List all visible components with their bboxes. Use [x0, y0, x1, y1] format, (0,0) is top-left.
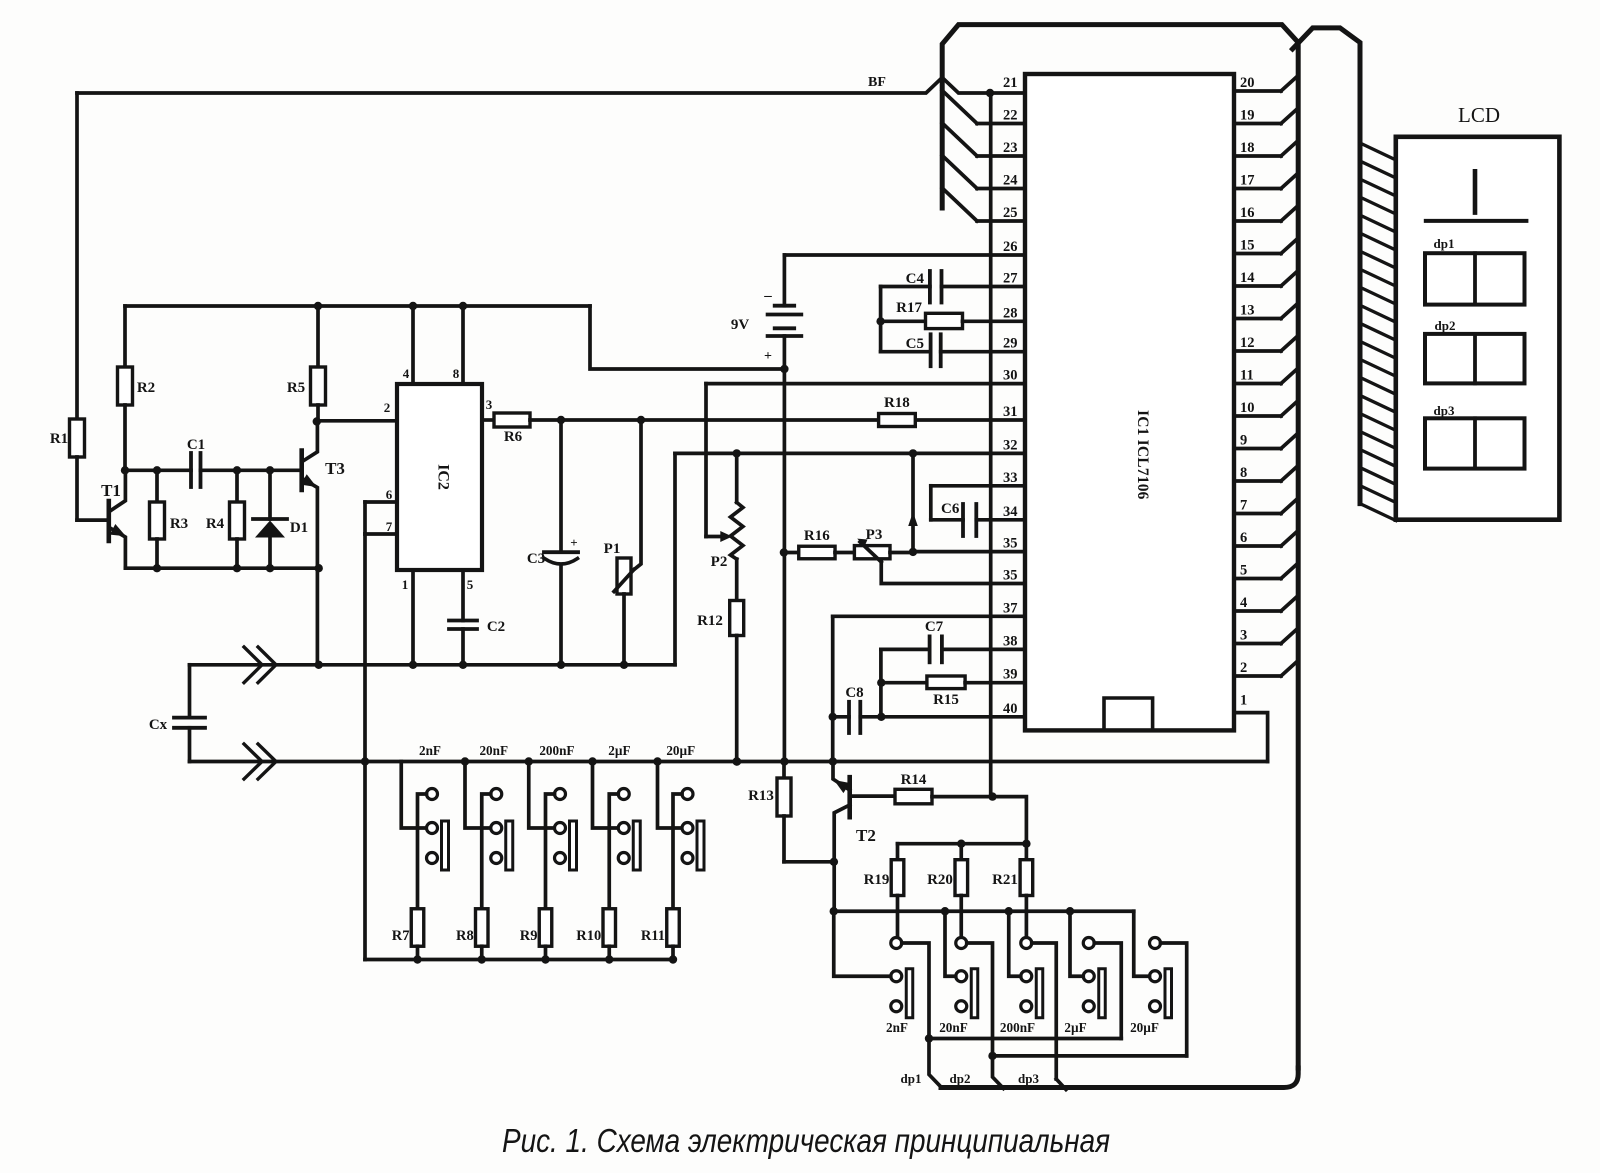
- label C7: [925, 619, 944, 635]
- wire IC1 pin 24 to left band: [942, 156, 1025, 189]
- transistor T3: [301, 422, 318, 569]
- label IC1 pin 12 right: [1240, 335, 1255, 351]
- label 20nF right: [939, 1020, 968, 1035]
- wire R19-R21 top rail: [898, 840, 1031, 848]
- wire IC1 pin37 row: [829, 616, 1026, 765]
- wire P3 to pin35 vertical with arrow: [908, 453, 918, 552]
- switch S1 range 2nF with resistor R7: [401, 762, 448, 964]
- svg-text:2: 2: [1240, 660, 1247, 676]
- svg-text:2µF: 2µF: [1064, 1020, 1086, 1035]
- wire IC1 pin 13 to right band: [1234, 304, 1298, 319]
- svg-text:C5: C5: [906, 336, 924, 352]
- label R3: [170, 516, 188, 532]
- label 20&#181;F left: [666, 743, 695, 758]
- label IC1 pin 7 right: [1240, 498, 1247, 514]
- label IC1 pin 23: [1003, 140, 1018, 156]
- wire ribbon conductor 18: [1360, 450, 1396, 467]
- svg-text:R5: R5: [287, 380, 305, 396]
- label R7: [392, 928, 410, 944]
- label P1: [604, 541, 621, 557]
- wire V+ rail y761: [190, 757, 1268, 765]
- svg-text:3: 3: [486, 397, 493, 412]
- label battery plus: [764, 349, 772, 364]
- label IC1 pin 32: [1003, 437, 1018, 453]
- wire IC1 pin 2 to right band: [1234, 661, 1298, 676]
- label R16: [804, 528, 830, 544]
- capacitor C2: [449, 570, 477, 669]
- label R19: [864, 872, 890, 888]
- switch dp range 20nF: [945, 911, 993, 1056]
- wire IC2 pin1 stub: [409, 570, 417, 669]
- trimmer P1: [614, 416, 645, 665]
- label dp3 LCD: [1434, 403, 1455, 418]
- label 20nF left: [479, 743, 508, 758]
- svg-text:R10: R10: [576, 928, 601, 944]
- label battery minus: [763, 288, 772, 304]
- label 2nF right: [886, 1020, 908, 1035]
- svg-text:28: 28: [1003, 305, 1018, 321]
- wire ribbon conductor 20: [1360, 486, 1396, 503]
- wire dp1 line: [925, 1034, 1121, 1087]
- wire IC1 pin 14 to right band: [1234, 271, 1298, 286]
- svg-text:200nF: 200nF: [539, 743, 574, 758]
- wire IC1 pin35 row: [913, 550, 1025, 554]
- label R4: [206, 516, 225, 532]
- wire IC2 pin2: [317, 419, 397, 423]
- label dp3: [1018, 1071, 1039, 1086]
- wire ribbon conductor 14: [1360, 377, 1396, 394]
- label IC1 pin 14 right: [1240, 270, 1255, 286]
- switch dp range 20&#181;F: [1134, 911, 1187, 1056]
- label 9V: [731, 317, 750, 333]
- wire IC1 pin 10 to right band: [1234, 401, 1298, 416]
- svg-text:–: –: [763, 288, 772, 304]
- label IC1 pin 38: [1003, 633, 1018, 649]
- svg-text:35: 35: [1003, 536, 1018, 552]
- svg-text:C8: C8: [845, 685, 863, 701]
- svg-text:P3: P3: [866, 527, 883, 543]
- svg-text:C3: C3: [527, 551, 545, 567]
- label IC1 pin 1 right: [1240, 693, 1247, 709]
- svg-text:P2: P2: [711, 554, 728, 570]
- svg-text:R17: R17: [896, 300, 922, 316]
- label C2: [487, 619, 505, 635]
- transistor T1: [77, 470, 126, 568]
- LCD box: [1396, 137, 1560, 520]
- label IC1 pin 15 right: [1240, 238, 1255, 254]
- label pin2: [384, 400, 391, 415]
- probe connector bottom: [244, 744, 276, 779]
- svg-text:LCD: LCD: [1458, 103, 1500, 127]
- label IC1 ICL7106: [1134, 410, 1151, 500]
- svg-text:24: 24: [1003, 173, 1018, 189]
- wire IC1 pin 11 to right band: [1234, 369, 1298, 384]
- label 2&#181;F left: [608, 743, 630, 758]
- svg-text:R14: R14: [901, 772, 927, 788]
- battery 9V: [768, 255, 802, 369]
- wire IC1 pin 22 to left band: [942, 91, 1025, 124]
- capacitor C3 polarized: [544, 420, 578, 665]
- wire IC1 pin 25 to left band: [942, 188, 1025, 221]
- label IC1 pin 25: [1003, 205, 1018, 221]
- wire IC1 pin 15 to right band: [1234, 239, 1298, 254]
- svg-text:2nF: 2nF: [419, 743, 441, 758]
- switch dp range 2&#181;F: [1070, 911, 1121, 1038]
- svg-text:1: 1: [1240, 693, 1247, 709]
- label R8: [456, 928, 474, 944]
- resistor R20: [955, 844, 968, 938]
- wire IC1 pin 16 to right band: [1234, 206, 1298, 221]
- svg-text:6: 6: [1240, 530, 1247, 546]
- label IC1 pin 21: [1003, 75, 1018, 91]
- wire IC1 pin 4 to right band: [1234, 596, 1298, 611]
- wire IC1 pin 20 to right band: [1234, 76, 1298, 91]
- wire C7-R15 bracket: [877, 649, 885, 721]
- label pin1: [402, 577, 409, 592]
- wire ribbon conductor 11: [1360, 323, 1396, 340]
- svg-text:5: 5: [467, 577, 474, 592]
- label BF: [868, 75, 886, 90]
- svg-text:T2: T2: [856, 826, 876, 845]
- label IC1 pin 2 right: [1240, 660, 1247, 676]
- svg-text:R4: R4: [206, 516, 225, 532]
- svg-text:C7: C7: [925, 619, 944, 635]
- label IC1 pin 37: [1003, 600, 1018, 616]
- label IC1 pin 17 right: [1240, 173, 1255, 189]
- label pin3: [486, 397, 493, 412]
- wire ribbon conductor 16: [1360, 413, 1396, 430]
- svg-text:IC2: IC2: [435, 464, 452, 490]
- svg-text:14: 14: [1240, 270, 1255, 286]
- svg-text:C6: C6: [941, 501, 960, 517]
- wire ribbon conductor 19: [1360, 468, 1396, 485]
- wire ribbon conductor 5: [1360, 215, 1396, 232]
- svg-text:7: 7: [1240, 498, 1247, 514]
- svg-text:32: 32: [1003, 437, 1018, 453]
- svg-text:R20: R20: [927, 872, 953, 888]
- label pin5: [467, 577, 474, 592]
- capacitor C8: [833, 702, 1025, 733]
- svg-text:22: 22: [1003, 108, 1018, 124]
- svg-text:20nF: 20nF: [939, 1020, 968, 1035]
- wire ribbon conductor 10: [1360, 305, 1396, 322]
- label IC1 pin 18 right: [1240, 140, 1255, 156]
- label Cx: [149, 717, 168, 733]
- wire ribbon band left loop: [941, 25, 1298, 1088]
- wire IC2 pin4 stub: [411, 306, 415, 384]
- svg-text:2nF: 2nF: [886, 1020, 908, 1035]
- label IC1 pin 16 right: [1240, 205, 1255, 221]
- switch dp range 2nF: [834, 911, 929, 1038]
- capacitor C7: [881, 636, 1025, 662]
- wire dp2 line: [988, 1052, 1186, 1089]
- label R14: [901, 772, 927, 788]
- label C1: [187, 437, 205, 453]
- wire IC1 pin 7 to right band: [1234, 499, 1298, 514]
- wire IC1 pin30 P2 wiper feed: [706, 384, 1025, 537]
- label IC1 pin 33: [1003, 470, 1018, 486]
- resistor R1: [70, 93, 85, 520]
- svg-text:R16: R16: [804, 528, 830, 544]
- label R6: [504, 429, 523, 445]
- label C3 plus: [570, 535, 577, 550]
- label dp2: [950, 1071, 971, 1086]
- op-amp IC2 box: [397, 384, 482, 570]
- label IC1 pin 29: [1003, 336, 1018, 352]
- svg-text:13: 13: [1240, 303, 1255, 319]
- svg-text:39: 39: [1003, 667, 1018, 683]
- svg-text:10: 10: [1240, 400, 1255, 416]
- svg-text:dp2: dp2: [1435, 318, 1456, 333]
- capacitor C6: [931, 486, 1025, 536]
- label IC1 pin 3 right: [1240, 628, 1247, 644]
- svg-text:23: 23: [1003, 140, 1018, 156]
- label dp1 LCD: [1434, 236, 1455, 251]
- LCD digit pair dp1: [1425, 253, 1525, 304]
- wire IC1 pin 5 to right band: [1234, 564, 1298, 579]
- svg-text:R8: R8: [456, 928, 474, 944]
- svg-text:38: 38: [1003, 633, 1018, 649]
- label IC1 pin 26: [1003, 239, 1018, 255]
- label R1: [50, 431, 68, 447]
- wire ribbon conductor 7: [1360, 251, 1396, 268]
- svg-text:dp1: dp1: [1434, 236, 1455, 251]
- wire IC1 pin1 return: [1234, 713, 1268, 762]
- label C6: [941, 501, 960, 517]
- wire R14 junction to R21 rail: [993, 797, 1027, 844]
- wire IC2 pins6-7 bracket: [365, 502, 397, 534]
- label IC1 pin 13 right: [1240, 303, 1255, 319]
- label R20: [927, 872, 953, 888]
- svg-text:12: 12: [1240, 335, 1255, 351]
- label IC1 pin 8 right: [1240, 465, 1247, 481]
- LCD digit pair dp2: [1425, 334, 1525, 384]
- svg-text:17: 17: [1240, 173, 1255, 189]
- switch S4 range 2&#181;F with resistor R10: [593, 762, 641, 964]
- wire dp3 drop: [1056, 1079, 1066, 1090]
- wire ribbon conductor 17: [1360, 431, 1396, 448]
- wire ribbon conductor 9: [1360, 287, 1396, 304]
- wire emitter rail y568: [125, 564, 323, 572]
- svg-text:R19: R19: [864, 872, 890, 888]
- svg-text:4: 4: [1240, 595, 1247, 611]
- wire ribbon conductor 6: [1360, 233, 1396, 250]
- svg-text:4: 4: [403, 366, 410, 381]
- svg-text:IC1 ICL7106: IC1 ICL7106: [1134, 410, 1151, 500]
- label 2&#181;F right: [1064, 1020, 1086, 1035]
- svg-text:26: 26: [1003, 239, 1018, 255]
- label R10: [576, 928, 601, 944]
- svg-text:Рис. 1. Схема электрическая пр: Рис. 1. Схема электрическая принципиальн…: [502, 1122, 1110, 1159]
- svg-text:R11: R11: [641, 928, 665, 944]
- label IC1 pin 34: [1003, 504, 1018, 520]
- svg-text:R1: R1: [50, 431, 68, 447]
- wire IC2 pin8 stub: [461, 306, 465, 384]
- wire ribbon conductor 13: [1360, 359, 1396, 376]
- svg-text:5: 5: [1240, 563, 1247, 579]
- capacitor C1: [191, 453, 201, 487]
- label R15: [933, 692, 959, 708]
- label IC1 pin 4 right: [1240, 595, 1247, 611]
- svg-text:1: 1: [402, 577, 409, 592]
- resistor R17: [881, 313, 1025, 328]
- svg-text:40: 40: [1003, 701, 1018, 717]
- svg-text:D1: D1: [290, 520, 308, 536]
- svg-text:R12: R12: [697, 613, 723, 629]
- svg-text:R13: R13: [748, 788, 774, 804]
- wire IC1 pin 18 to right band: [1234, 141, 1298, 156]
- label R2: [137, 380, 155, 396]
- svg-text:20µF: 20µF: [1130, 1020, 1159, 1035]
- transistor T2: [830, 762, 850, 912]
- wire T3 emitter down to rail665: [315, 568, 323, 669]
- svg-text:31: 31: [1003, 404, 1018, 420]
- IC1 bottom notch: [1104, 698, 1153, 730]
- IC U1 IC1 ICL7106 box: [1025, 74, 1234, 730]
- label IC1 pin 11 right: [1240, 368, 1254, 384]
- resistor R13: [777, 762, 834, 862]
- svg-text:27: 27: [1003, 271, 1018, 287]
- resistor R14: [850, 789, 997, 804]
- label D1: [290, 520, 308, 536]
- wire ribbon conductor 12: [1360, 341, 1396, 358]
- label pin4: [403, 366, 410, 381]
- label IC1 pin 27: [1003, 271, 1018, 287]
- wire IC1 pin 19 to right band: [1234, 109, 1298, 124]
- label IC1 pin 6 right: [1240, 530, 1247, 546]
- wire BP vertical bus: [989, 93, 993, 797]
- wire IC1 pin 17 to right band: [1234, 174, 1298, 189]
- svg-text:19: 19: [1240, 108, 1255, 124]
- LCD digit 1 segment: [1473, 171, 1478, 212]
- label LCD: [1458, 103, 1500, 127]
- label pin8: [453, 366, 460, 381]
- label IC2: [435, 464, 452, 490]
- capacitor Cx: [174, 665, 205, 762]
- switch S2 range 20nF with resistor R8: [465, 762, 513, 964]
- svg-text:T3: T3: [325, 459, 345, 478]
- label IC1 pin 39: [1003, 667, 1018, 683]
- svg-text:dp3: dp3: [1018, 1071, 1039, 1086]
- label P3: [866, 527, 883, 543]
- svg-text:30: 30: [1003, 368, 1018, 384]
- LCD digit pair dp3: [1425, 418, 1525, 468]
- svg-text:29: 29: [1003, 336, 1018, 352]
- svg-text:dp2: dp2: [950, 1071, 971, 1086]
- label R9: [520, 928, 538, 944]
- svg-text:P1: P1: [604, 541, 621, 557]
- svg-text:R6: R6: [504, 429, 523, 445]
- svg-text:16: 16: [1240, 205, 1255, 221]
- label 200nF left: [539, 743, 574, 758]
- label IC1 pin 22: [1003, 108, 1018, 124]
- label R5: [287, 380, 305, 396]
- label IC1 pin 35: [1003, 536, 1018, 552]
- resistor R2: [118, 306, 133, 470]
- trimmer P3: [854, 539, 1025, 584]
- wire IC1 pin 9 to right band: [1234, 434, 1298, 449]
- svg-text:+: +: [764, 349, 772, 364]
- svg-text:9: 9: [1240, 433, 1247, 449]
- label dp2 LCD: [1435, 318, 1456, 333]
- wire IC1 pin 3 to right band: [1234, 629, 1298, 644]
- svg-text:R15: R15: [933, 692, 959, 708]
- label IC1 pin 36: [1003, 568, 1018, 584]
- label IC1 pin 9 right: [1240, 433, 1247, 449]
- svg-text:R7: R7: [392, 928, 410, 944]
- label C3: [527, 551, 545, 567]
- svg-text:+: +: [570, 535, 577, 550]
- svg-text:Cx: Cx: [149, 717, 168, 733]
- switch dp range 200nF: [1009, 911, 1057, 1079]
- svg-text:R21: R21: [992, 872, 1018, 888]
- label R21: [992, 872, 1018, 888]
- svg-text:C2: C2: [487, 619, 505, 635]
- label R13: [748, 788, 774, 804]
- resistor R19: [891, 844, 904, 938]
- wire lower rail R7-R11: [365, 958, 673, 962]
- svg-text:8: 8: [1240, 465, 1247, 481]
- wire ribbon conductor 21: [1360, 504, 1396, 521]
- wire ribbon conductor 15: [1360, 395, 1396, 412]
- svg-text:R9: R9: [520, 928, 538, 944]
- wire battery plus column: [780, 369, 789, 766]
- switch S5 range 20&#181;F with resistor R11: [658, 762, 705, 964]
- wire IC1 pin 12 to right band: [1234, 336, 1298, 351]
- svg-text:34: 34: [1003, 504, 1018, 520]
- wire dp switch rail: [830, 907, 1134, 915]
- capacitor C4: [881, 271, 1025, 303]
- svg-text:T1: T1: [101, 481, 121, 500]
- svg-text:21: 21: [1003, 75, 1018, 91]
- label IC1 pin 20 right: [1240, 75, 1255, 91]
- label IC1 pin 10 right: [1240, 400, 1255, 416]
- label IC1 pin 19 right: [1240, 108, 1255, 124]
- zener diode D1: [253, 470, 287, 568]
- wire ribbon conductor 4: [1360, 197, 1396, 214]
- wire IC1 pin26 battery minus: [784, 253, 1025, 257]
- wire pins6-7 down to V+ rail and lower rail: [361, 534, 369, 960]
- svg-text:7: 7: [386, 519, 393, 534]
- svg-text:11: 11: [1240, 368, 1254, 384]
- label R18: [884, 395, 910, 411]
- label IC1 pin 40: [1003, 701, 1018, 717]
- capacitor C5: [881, 334, 1025, 366]
- svg-text:C4: C4: [906, 271, 925, 287]
- wire IC1 pin31 row: [561, 418, 1025, 422]
- svg-text:35: 35: [1003, 568, 1018, 584]
- svg-text:8: 8: [453, 366, 460, 381]
- label dp1: [901, 1071, 922, 1086]
- svg-text:BF: BF: [868, 75, 886, 90]
- label T1: [101, 481, 121, 500]
- svg-text:20nF: 20nF: [479, 743, 508, 758]
- label C8: [845, 685, 863, 701]
- label IC1 pin 28: [1003, 305, 1018, 321]
- label IC1 pin 24: [1003, 173, 1018, 189]
- svg-text:2µF: 2µF: [608, 743, 630, 758]
- wire IC1 pin32 row: [675, 449, 1025, 665]
- caption: [502, 1122, 1110, 1159]
- svg-text:R18: R18: [884, 395, 910, 411]
- svg-text:3: 3: [1240, 628, 1247, 644]
- label pin7: [386, 519, 393, 534]
- label 200nF right: [1000, 1020, 1035, 1035]
- resistor R15: [881, 676, 1025, 689]
- switch S3 range 200nF with resistor R9: [529, 762, 577, 964]
- svg-text:6: 6: [386, 487, 393, 502]
- svg-text:C1: C1: [187, 437, 205, 453]
